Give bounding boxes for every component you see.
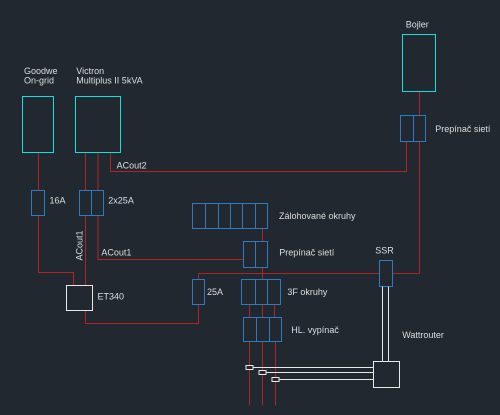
svg-text:ACout1: ACout1 [75, 230, 85, 260]
svg-text:SSR: SSR [375, 246, 394, 256]
svg-text:HL. vypínač: HL. vypínač [291, 325, 339, 335]
svg-text:Bojler: Bojler [406, 19, 429, 29]
svg-text:16A: 16A [50, 196, 66, 206]
svg-text:ACout1: ACout1 [101, 248, 131, 258]
svg-text:Wattrouter: Wattrouter [402, 330, 444, 340]
svg-text:2x25A: 2x25A [108, 196, 134, 206]
svg-text:ACout2: ACout2 [117, 160, 147, 170]
svg-text:3F okruhy: 3F okruhy [287, 287, 328, 297]
svg-text:Prepínač sietí: Prepínač sietí [279, 248, 335, 258]
svg-text:Multiplus II 5kVA: Multiplus II 5kVA [76, 75, 142, 85]
svg-text:Zálohované okruhy: Zálohované okruhy [279, 211, 356, 221]
svg-text:Prepínač sietí: Prepínač sietí [435, 124, 491, 134]
svg-text:25A: 25A [207, 287, 223, 297]
svg-text:On-grid: On-grid [24, 75, 54, 85]
svg-text:ET340: ET340 [98, 292, 125, 302]
